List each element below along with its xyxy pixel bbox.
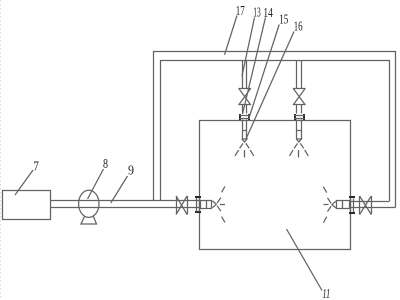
leader line to tank 11 [287, 229, 323, 291]
svg-text:7: 7 [33, 160, 39, 175]
spray fan of nozzle N1 [240, 143, 243, 148]
branch pipe 2 (right vertical drop pipe) [296, 61, 298, 89]
leader line to tank 7 [15, 170, 33, 195]
tank 7 (small left tank) [3, 191, 51, 220]
svg-text:15: 15 [279, 13, 288, 28]
right side nozzle [337, 201, 350, 209]
spray fan of right side nozzle [328, 198, 332, 203]
svg-text:9: 9 [128, 164, 134, 179]
flange F1 on branch pipe 1 [239, 114, 241, 120]
pipe 9 (horizontal double-line from tank 7 into tank 11) [51, 200, 201, 202]
pipe 17 inner loop line [161, 61, 390, 202]
left side valve (gate valve on pipe 9) [176, 196, 178, 215]
leader line 16 to nozzle N1 [246, 32, 294, 140]
leader line to pipe 9 [111, 176, 128, 203]
pump 8 stand [81, 215, 97, 224]
pump 8 (circle with stand) [79, 190, 99, 217]
left side nozzle [201, 201, 212, 209]
leader line 15 to flange F1 [249, 25, 279, 119]
leader line 13 to branch pipe 1 [242, 18, 255, 77]
branch pipe 1 (left vertical drop pipe) [242, 61, 244, 89]
right side flange [349, 196, 355, 198]
leader line to pipe 17 [225, 16, 238, 55]
valve V2 on branch pipe 2 [293, 88, 306, 90]
right side pipe (from loop into tank) [350, 201, 390, 203]
leader line to pump 8 [88, 169, 104, 199]
nozzle N1 on branch pipe 1 [242, 120, 244, 140]
spray fan of nozzle N2 [294, 143, 297, 148]
tank 11 (main chamber) [200, 121, 351, 250]
valve V1 on branch pipe 1 [239, 88, 252, 90]
left side flange [195, 196, 201, 198]
svg-text:16: 16 [294, 20, 303, 35]
pipe 17 outer loop line [154, 52, 396, 208]
svg-text:11: 11 [322, 287, 330, 300]
flange F2 on branch pipe 2 [294, 114, 296, 120]
nozzle N2 on branch pipe 2 [296, 120, 298, 140]
spray fan of left side nozzle [217, 198, 221, 203]
right side valve (gate valve) [359, 196, 361, 215]
leader line 14 to valve V1 [243, 18, 266, 115]
